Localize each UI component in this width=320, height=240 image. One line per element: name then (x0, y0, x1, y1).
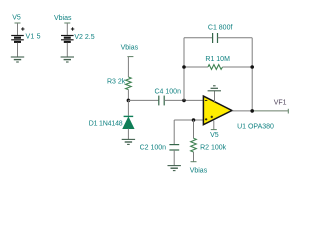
pin marker plus (positive supply) (211, 116, 213, 118)
wire (17, 23, 19, 36)
node VF1 (output terminal) (274, 100, 289, 114)
wire (R1 row left) (184, 66, 208, 68)
svg-text:R1 10M: R1 10M (205, 56, 230, 63)
node junction +input/R2 (192, 118, 196, 122)
capacitor C4 (159, 96, 164, 106)
svg-text:R2 100k: R2 100k (200, 144, 227, 151)
ground (168, 166, 181, 171)
op-amp U1 OPA380 (203, 96, 232, 125)
svg-text:D1 1N4148: D1 1N4148 (89, 121, 123, 128)
svg-text:C1 800f: C1 800f (208, 24, 233, 31)
svg-text:Vbias: Vbias (190, 167, 208, 174)
diode D1 1N4148 (123, 116, 134, 128)
svg-text:C4 100n: C4 100n (155, 88, 182, 95)
svg-text:V1 5: V1 5 (26, 33, 41, 40)
svg-text:C2 100n: C2 100n (140, 144, 167, 151)
resistor R3 (126, 77, 132, 90)
wire (127, 90, 129, 101)
svg-text:Vbias: Vbias (54, 15, 72, 22)
wire (C2 drop) (173, 120, 175, 144)
node junction R3/D1/C4 (127, 99, 131, 103)
capacitor C1 (213, 33, 218, 43)
wire (66, 43, 68, 57)
battery V1 (11, 27, 24, 42)
pin marker plus (non-inverting input) (205, 118, 207, 120)
wire (output) (232, 110, 252, 112)
battery V2 (61, 27, 74, 42)
wire (218, 37, 253, 39)
node Vbias (top of R3) (121, 44, 139, 56)
node junction R1 right (250, 65, 254, 69)
capacitor C2 (169, 145, 179, 150)
wire (negative supply pin) (214, 91, 216, 102)
node V5 (battery V1 top terminal) (12, 15, 21, 24)
ground (122, 139, 135, 144)
wire (127, 100, 129, 115)
node Vbias (bottom of R2) (190, 162, 208, 175)
wire (feedback top) (184, 37, 213, 39)
wire (17, 43, 19, 57)
wire (127, 129, 129, 140)
resistor R1 (208, 65, 222, 70)
svg-text:Vbias: Vbias (121, 44, 139, 51)
node Vbias (battery V2 top terminal) (54, 15, 72, 23)
wire (193, 152, 195, 162)
wire (R2 drop) (193, 120, 195, 138)
svg-text:VF1: VF1 (274, 100, 287, 107)
svg-text:V5: V5 (12, 15, 21, 22)
resistor R2 (191, 138, 197, 152)
svg-text:U1 OPA380: U1 OPA380 (237, 124, 274, 131)
ground (11, 57, 24, 62)
wire (+input net) (174, 119, 203, 121)
wire (127, 57, 129, 77)
pin marker minus (inverting input) (205, 99, 207, 101)
svg-text:R3 2k: R3 2k (107, 79, 126, 86)
ground (inverted, above op-amp) (208, 86, 221, 91)
node junction output/feedback (250, 109, 254, 113)
node V5 (op-amp supply) (210, 130, 219, 139)
wire (positive supply pin) (213, 121, 215, 130)
wire (173, 150, 175, 166)
wire (inverting input net) (128, 99, 158, 101)
wire (feedback right vertical) (251, 38, 253, 111)
svg-text:V5: V5 (210, 132, 219, 139)
wire (feedback left vertical) (183, 38, 185, 101)
node junction C4/feedback/inverting input (182, 99, 186, 103)
wire (R1 row right) (223, 66, 253, 68)
ground (61, 57, 74, 62)
wire (164, 99, 203, 101)
svg-text:V2 2.5: V2 2.5 (74, 34, 94, 41)
wire (66, 23, 68, 36)
node junction R1 left (182, 65, 186, 69)
